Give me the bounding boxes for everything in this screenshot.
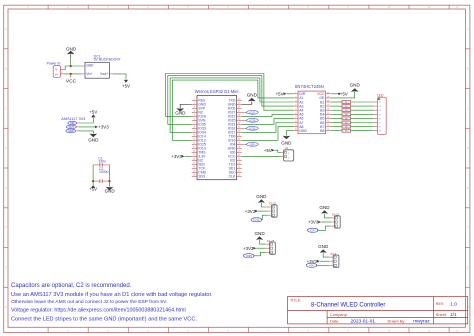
svg-text:1/1: 1/1: [450, 312, 457, 317]
svg-text:VIN: VIN: [70, 122, 74, 125]
svg-text:25: 25: [238, 159, 240, 161]
svg-text:Company:: Company:: [330, 312, 348, 317]
+3V3 net flag (AMS output): [95, 124, 109, 129]
connector J2: [281, 146, 294, 161]
svg-text:7: 7: [295, 117, 296, 119]
svg-text:GND: GND: [318, 244, 329, 249]
svg-text:3: 3: [194, 107, 195, 109]
resistor R4: [331, 113, 378, 116]
svg-text:12: 12: [193, 143, 195, 145]
svg-text:G: G: [5, 266, 7, 269]
svg-text:18: 18: [327, 101, 329, 103]
wire X2-25 pin1 to ground flag: [260, 240, 266, 244]
ground flag (U3 GND): [281, 136, 292, 146]
ground flag (U1 left): [175, 108, 186, 116]
wire to ground flag below caps: [109, 181, 111, 187]
wire +3V3 flag to X2-25 pin2: [256, 247, 265, 249]
svg-text:B8: B8: [320, 129, 324, 133]
svg-text:IO4: IO4: [250, 142, 255, 146]
svg-text:36: 36: [238, 115, 240, 117]
net label IO4: [242, 142, 258, 146]
svg-text:30: 30: [238, 139, 240, 141]
svg-text:GND: GND: [299, 129, 307, 133]
title block: [288, 297, 468, 325]
svg-text:Connect the LED stripes to the: Connect the LED stripes to the same GND …: [11, 316, 197, 322]
net label IO25: [242, 118, 258, 122]
resistor R1: [331, 101, 378, 104]
connector P1 Power In: [47, 62, 64, 78]
svg-text:34: 34: [238, 123, 240, 125]
wire to +5V flag below caps: [92, 181, 94, 185]
svg-text:Sheet:: Sheet:: [436, 312, 447, 317]
ground flag (X2-27): [319, 205, 330, 214]
svg-text:GND: GND: [105, 189, 116, 194]
wire U1 GND pin to ground flag left: [180, 104, 192, 108]
svg-text:9: 9: [194, 131, 195, 133]
wire +5V flag to J2 pin 1: [275, 150, 281, 152]
net label IO32: [242, 126, 258, 130]
svg-text:6: 6: [194, 119, 195, 121]
svg-text:GND: GND: [247, 92, 258, 97]
svg-text:32: 32: [238, 131, 240, 133]
svg-text:5: 5: [194, 115, 195, 117]
connector X2-32: [267, 202, 277, 218]
svg-text:5V BUCKBOOST: 5V BUCKBOOST: [94, 58, 122, 62]
svg-text:Vout+: Vout+: [100, 72, 108, 76]
ground flag (U3 OE): [350, 82, 361, 91]
wire U1 IO22 to U3 A5: [242, 114, 294, 116]
svg-text:Vin+: Vin+: [86, 72, 93, 76]
svg-text:9: 9: [295, 125, 296, 127]
svg-text:IO25: IO25: [246, 254, 252, 258]
svg-text:14: 14: [327, 117, 329, 119]
ground flag (caps): [105, 187, 116, 194]
svg-text:28: 28: [238, 147, 240, 149]
+3V3 net flag (X2-32): [245, 209, 258, 214]
connector X2-27: [331, 213, 341, 229]
DC-DC module DC1 5V BUCKBOOST: [82, 54, 122, 78]
svg-text:29: 29: [238, 143, 240, 145]
svg-text:21: 21: [238, 175, 240, 177]
note text block: [11, 283, 213, 322]
wire VCC net Power In to DC1 Vin+: [63, 73, 81, 75]
svg-text:REV:: REV:: [436, 302, 444, 306]
svg-text:+5V: +5V: [264, 148, 272, 153]
svg-text:IO32: IO32: [253, 218, 259, 222]
svg-text:7: 7: [194, 123, 195, 125]
junction cap left: [92, 180, 94, 182]
resistor R5: [331, 117, 378, 120]
svg-text:5: 5: [295, 109, 296, 111]
wire X2-27 pin1 to ground flag: [325, 214, 331, 218]
wire U1 VCC to J2 pin 2: [242, 155, 281, 157]
svg-text:SN74HCT245N: SN74HCT245N: [295, 84, 324, 89]
svg-text:13: 13: [193, 147, 195, 149]
svg-text:Voltage regulator: https://de.: Voltage regulator: https://de.aliexpress…: [11, 307, 186, 313]
svg-text:mwyraz: mwyraz: [413, 319, 430, 325]
ground flag (AMS): [88, 134, 99, 143]
svg-text:+5V: +5V: [89, 110, 97, 115]
svg-text:+5V: +5V: [276, 91, 284, 96]
svg-text:8-Channel WLED Controller: 8-Channel WLED Controller: [311, 303, 385, 309]
wire X2-4 pin1 to ground flag: [323, 253, 329, 257]
wire DC1 Vout to +5V flag: [113, 74, 126, 80]
svg-text:+3V3: +3V3: [243, 246, 254, 251]
svg-text:GND: GND: [350, 82, 361, 87]
svg-text:2: 2: [194, 103, 195, 105]
svg-text:C: C: [5, 107, 7, 110]
VCC net flag: [66, 74, 77, 85]
svg-text:40: 40: [238, 99, 240, 101]
junction cap right: [108, 180, 110, 182]
wire +3V3 flag to X2-32 pin2: [258, 210, 267, 212]
capacitor C2 1000u: [93, 167, 109, 183]
svg-text:Wemos ESP32 D1 Mini: Wemos ESP32 D1 Mini: [195, 89, 239, 94]
svg-text:+5V: +5V: [340, 91, 348, 96]
svg-text:IO27: IO27: [310, 228, 316, 232]
wire cap right rail: [109, 165, 111, 181]
svg-text:+5V: +5V: [89, 187, 97, 192]
svg-text:GND: GND: [256, 194, 267, 199]
svg-text:+3V3: +3V3: [245, 209, 256, 214]
wire AMS GND to ground: [79, 131, 93, 134]
ground flag (X2-4): [318, 244, 329, 253]
svg-text:Drawn By:: Drawn By:: [388, 319, 406, 324]
svg-text:Otherwise leave the AMS out an: Otherwise leave the AMS out and connect …: [11, 299, 167, 305]
svg-text:14: 14: [193, 151, 195, 153]
svg-text:AMS1117 3V3: AMS1117 3V3: [61, 117, 85, 121]
svg-text:17: 17: [327, 105, 329, 107]
svg-text:1.0: 1.0: [450, 302, 457, 308]
svg-text:18: 18: [193, 167, 195, 169]
svg-text:IO27: IO27: [249, 110, 255, 114]
svg-text:27: 27: [238, 151, 240, 153]
svg-text:CLK: CLK: [229, 175, 236, 179]
svg-text:15: 15: [193, 155, 195, 157]
svg-text:GND: GND: [68, 130, 74, 133]
wire bus channel 1 (U1 IO26 around top to U3 A4): [166, 74, 294, 117]
junction VCC wire: [70, 73, 72, 75]
svg-text:10: 10: [193, 135, 195, 137]
capacitor C1 100n: [93, 157, 109, 167]
svg-text:12: 12: [327, 125, 329, 127]
svg-text:1: 1: [194, 99, 195, 101]
svg-text:1: 1: [295, 92, 296, 94]
svg-text:IO32: IO32: [249, 126, 255, 130]
wire bus channel 2 (U1 IO35 around top to U3 A3): [168, 76, 294, 125]
svg-text:35: 35: [238, 119, 240, 121]
svg-text:GND: GND: [281, 140, 292, 145]
resistor R2: [331, 105, 378, 108]
svg-text:37: 37: [238, 111, 240, 113]
svg-text:+3V3: +3V3: [308, 220, 319, 225]
svg-text:24: 24: [238, 163, 240, 165]
wire U3 VCC to +5V flag: [331, 93, 337, 95]
svg-text:19: 19: [327, 96, 329, 98]
wire AMS OUT to +3V3 flag: [79, 126, 95, 128]
net label IO4 (X2-4): [306, 263, 317, 267]
svg-text:C: C: [467, 107, 469, 110]
svg-text:22: 22: [238, 171, 240, 173]
wire X2-32 pin1 to ground flag: [261, 203, 267, 207]
wire bus channel 3 (U1 IO34 around top to U3 A2): [170, 78, 294, 132]
wire cap left rail: [92, 165, 94, 181]
svg-text:GND: GND: [86, 64, 94, 68]
svg-text:2: 2: [295, 96, 296, 98]
svg-text:IO4: IO4: [309, 263, 314, 267]
svg-text:+5V: +5V: [122, 84, 130, 89]
+5V net flag (U3 DIR): [276, 91, 287, 96]
svg-text:OUT: OUT: [69, 126, 75, 129]
ground flag (U1 top right): [247, 92, 258, 101]
svg-text:33: 33: [238, 127, 240, 129]
ground flag (X2-32): [256, 194, 267, 203]
svg-text:Use an AMS117 3V3 module if yo: Use an AMS117 3V3 module if you have an …: [11, 292, 213, 298]
wire AMS VIN to +5V: [79, 118, 93, 123]
wire +3V3 flag to U1: [185, 155, 192, 157]
resistor R6: [331, 121, 378, 124]
svg-text:+3V3: +3V3: [98, 124, 109, 129]
svg-text:13: 13: [327, 121, 329, 123]
svg-text:26: 26: [238, 155, 240, 157]
svg-text:11: 11: [193, 139, 195, 141]
svg-text:19: 19: [193, 171, 195, 173]
svg-text:16: 16: [193, 159, 195, 161]
+5V net flag (AMS input): [89, 110, 97, 118]
wire U1 GND right pin to ground flag: [242, 101, 252, 104]
svg-text:GND: GND: [254, 231, 265, 236]
wire X2-27 pin3 to net label IO27: [317, 226, 330, 230]
svg-text:VCC: VCC: [66, 79, 77, 85]
svg-text:D: D: [467, 147, 469, 150]
svg-text:31: 31: [238, 135, 240, 137]
svg-text:+3V3: +3V3: [171, 154, 182, 159]
svg-text:TITLE:: TITLE:: [290, 299, 301, 303]
svg-text:38: 38: [238, 107, 240, 109]
svg-text:6: 6: [295, 113, 296, 115]
wire +3V3 flag to X2-27 pin2: [321, 221, 330, 223]
+3V3 net flag (X2-27): [308, 220, 321, 225]
regulator module AMS1117 3V3: [61, 117, 85, 133]
svg-text:GND: GND: [66, 46, 77, 51]
svg-text:2: 2: [62, 68, 63, 70]
net label IO32 (X2-32): [251, 218, 262, 222]
svg-text:J2: J2: [285, 146, 288, 150]
svg-text:4: 4: [295, 105, 296, 107]
svg-text:GND: GND: [319, 205, 330, 210]
wire GND net from ground flag to DC1: [70, 57, 72, 66]
svg-text:20: 20: [327, 92, 329, 94]
+3V3 net flag (X2-25): [243, 246, 256, 251]
svg-text:10: 10: [295, 129, 297, 131]
svg-text:39: 39: [238, 103, 240, 105]
wire X2-4 pin3 to net label IO4: [316, 264, 329, 266]
ground flag (power input): [66, 46, 77, 57]
svg-text:3: 3: [295, 101, 296, 103]
svg-text:20: 20: [193, 175, 195, 177]
+5V net flag (J2): [264, 148, 275, 153]
connector X2-25: [266, 239, 276, 255]
svg-text:17: 17: [193, 163, 195, 165]
wire U3 GND to ground flag: [286, 131, 294, 136]
module U1 Wemos ESP32 D1 Mini: [192, 89, 242, 180]
wire U1 IO21 to U3 A6: [242, 118, 294, 124]
svg-text:V-: V-: [55, 68, 58, 72]
svg-text:G: G: [467, 266, 469, 269]
wire +3V3 flag to X2-4 pin2: [320, 260, 329, 262]
resistor R3: [331, 109, 378, 112]
connector LED: [377, 94, 386, 135]
svg-text:Date:: Date:: [330, 319, 339, 324]
svg-text:Capacitors are optional, C2 is: Capacitors are optional, C2 is recommend…: [11, 283, 132, 289]
svg-text:D: D: [5, 147, 7, 150]
svg-text:Power In: Power In: [47, 62, 61, 66]
wire +5V flag to U3 DIR: [286, 93, 294, 95]
connector X2-4: [329, 252, 339, 267]
wire X2-32 pin3 to net label IO32: [261, 215, 267, 220]
net label IO25 (X2-25): [243, 254, 254, 258]
resistor R8: [331, 129, 378, 132]
svg-text:4: 4: [194, 111, 195, 113]
wire X2-25 pin3 to net label IO25: [254, 252, 266, 256]
+5V net flag (U3 VCC): [337, 91, 348, 96]
+3V3 net flag (X2-4): [307, 259, 320, 264]
svg-text:2023-01-01: 2023-01-01: [351, 319, 376, 325]
svg-text:8: 8: [295, 121, 296, 123]
resistor R7: [331, 125, 378, 128]
+5V net flag (DC1 output): [122, 80, 130, 89]
svg-text:1000u: 1000u: [99, 170, 109, 174]
svg-text:V+: V+: [55, 72, 59, 76]
svg-text:8: 8: [194, 127, 195, 129]
svg-text:16: 16: [327, 109, 329, 111]
ground flag (X2-25): [254, 231, 265, 240]
buffer U3 SN74HCT245N: [294, 84, 331, 134]
svg-text:SD3: SD3: [198, 175, 205, 179]
wire U1 IO17 to U3 A7: [242, 123, 294, 133]
svg-text:H: H: [5, 306, 7, 309]
wire U1 IO16 to U3 A8: [242, 127, 294, 141]
wire U3 OE to ground flag: [331, 92, 355, 98]
wire bus channel 4 (U1 IO12 around top to U3 A1): [172, 80, 294, 140]
svg-text:100n: 100n: [98, 160, 106, 164]
+3V3 net flag (U1 3.3V pin): [171, 154, 184, 159]
net label IO27 (X2-27): [307, 228, 318, 232]
svg-text:IO25: IO25: [249, 118, 255, 122]
svg-text:GND: GND: [175, 111, 186, 116]
junction GND wire: [70, 65, 72, 67]
svg-text:1: 1: [62, 72, 63, 74]
svg-text:GND: GND: [88, 137, 99, 142]
svg-text:15: 15: [327, 113, 329, 115]
svg-text:11: 11: [327, 129, 329, 131]
svg-text:23: 23: [238, 167, 240, 169]
net label IO27: [242, 110, 258, 114]
+5V net flag (caps): [89, 185, 97, 192]
